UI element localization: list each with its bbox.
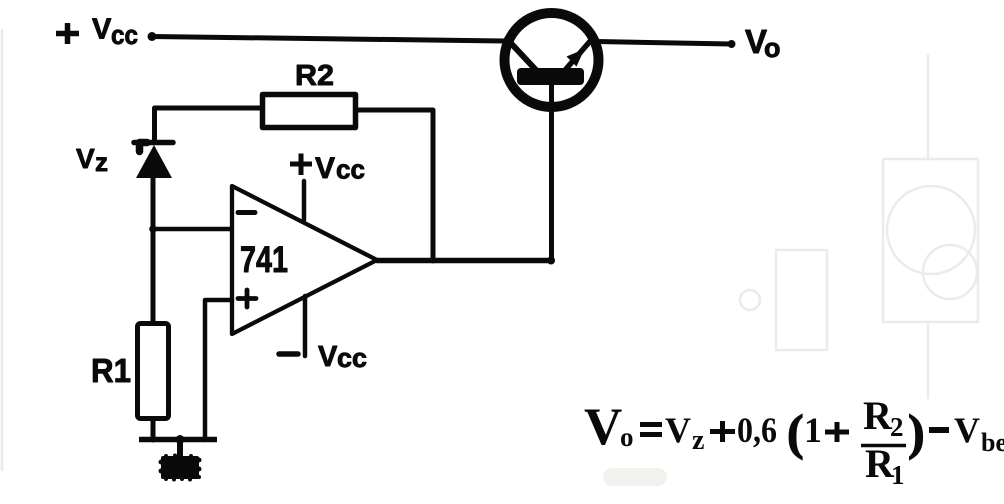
wire non-inverting input xyxy=(205,300,232,440)
svg-text:V: V xyxy=(92,14,112,46)
wire R1 bottom to ground rail xyxy=(151,419,156,440)
label -Vcc text xyxy=(318,341,367,373)
ground stub xyxy=(177,439,183,457)
resistor R2 body xyxy=(263,95,356,128)
svg-text:o: o xyxy=(620,422,634,452)
svg-text:cc: cc xyxy=(336,155,365,185)
wire inverting input xyxy=(153,227,231,232)
svg-text:z: z xyxy=(95,147,108,177)
transistor Q1 collector diagonal xyxy=(507,39,536,70)
svg-text:be: be xyxy=(981,428,1004,457)
zener D1 cathode bar xyxy=(134,140,173,146)
label Vo xyxy=(745,23,781,63)
resistor R1 body xyxy=(138,324,169,419)
svg-text:R2: R2 xyxy=(295,60,334,92)
formula fraction bar xyxy=(861,444,906,448)
label Vz xyxy=(76,143,108,177)
label -Vcc minus sign xyxy=(279,351,298,357)
ground rail xyxy=(139,437,217,443)
node dot inverting junction xyxy=(149,225,157,233)
svg-text:(: ( xyxy=(787,404,804,460)
transistor Q1 emitter arrow xyxy=(567,49,585,67)
wire R2 right to vertical xyxy=(356,110,433,261)
svg-text:1: 1 xyxy=(891,460,905,490)
op-amp minus sign xyxy=(238,210,255,215)
svg-text:R1: R1 xyxy=(91,352,131,389)
svg-text:2: 2 xyxy=(890,412,904,442)
wire R2 left to top corner xyxy=(155,108,263,140)
svg-text:V: V xyxy=(665,410,691,450)
ground hatched block xyxy=(159,454,202,482)
label +Vcc text xyxy=(315,152,365,185)
svg-text:V: V xyxy=(315,152,335,185)
label Vcc top-left text xyxy=(92,14,138,51)
formula minus sign xyxy=(929,427,949,433)
transistor Q1 base bar xyxy=(517,68,584,85)
svg-text:cc: cc xyxy=(337,343,367,373)
wire Vcc rail to transistor collector xyxy=(152,37,504,42)
node dot ground junction xyxy=(176,435,185,444)
wire zener anode down to R1 xyxy=(151,178,156,322)
svg-text:R: R xyxy=(863,393,893,438)
wire op-amp output to base xyxy=(377,258,552,264)
formula Vo = Vz + 0,6 (1 + R2/R1) - Vbe xyxy=(584,393,1004,490)
ghost smudge bottom xyxy=(612,468,658,486)
zener D1 cathode hook xyxy=(140,143,148,152)
svg-text:z: z xyxy=(692,425,704,456)
svg-text:0,6: 0,6 xyxy=(737,410,777,450)
transistor Q1 circle xyxy=(505,13,599,107)
op-amp U1 triangle xyxy=(232,186,377,334)
node dot output corner xyxy=(547,257,555,265)
transistor Q1 emitter diagonal xyxy=(566,39,592,69)
svg-text:o: o xyxy=(764,33,781,63)
svg-text:cc: cc xyxy=(111,20,138,50)
node dot Vo end xyxy=(728,40,736,48)
svg-text:1: 1 xyxy=(804,410,822,450)
svg-text:V: V xyxy=(584,398,622,456)
op-amp -Vcc pin xyxy=(303,296,308,356)
label +Vcc top-left plus sign xyxy=(56,23,79,44)
label +Vcc plus sign xyxy=(290,154,312,176)
svg-text:V: V xyxy=(76,143,95,174)
op-amp plus sign xyxy=(238,290,256,307)
svg-text:741: 741 xyxy=(240,239,288,280)
wire emitter to Vo xyxy=(597,42,731,45)
node dot Vcc rail start xyxy=(148,32,157,41)
op-amp +Vcc pin xyxy=(302,181,307,220)
svg-text:V: V xyxy=(318,341,338,373)
zener D1 anode triangle xyxy=(136,145,172,178)
wire transistor base down xyxy=(549,85,554,261)
svg-text:V: V xyxy=(954,410,980,450)
svg-text:): ) xyxy=(908,404,925,460)
